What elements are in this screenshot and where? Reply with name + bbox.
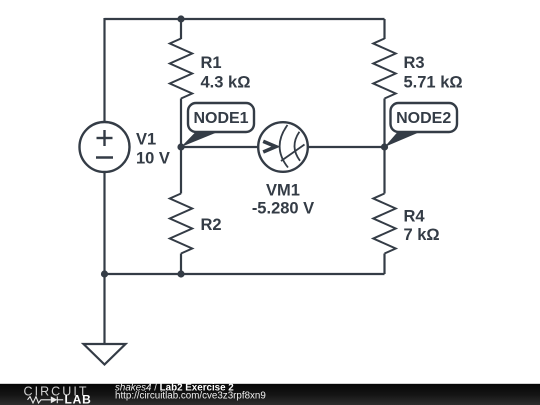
wire left rail lower (V1 to bottom rail and ground stem) bbox=[103, 172, 105, 344]
svg-text:NODE1: NODE1 bbox=[193, 110, 248, 127]
svg-text:7 kΩ: 7 kΩ bbox=[404, 226, 440, 244]
svg-text:-5.280 V: -5.280 V bbox=[252, 200, 314, 218]
svg-text:R3: R3 bbox=[404, 54, 425, 72]
svg-text:4.3 kΩ: 4.3 kΩ bbox=[201, 73, 251, 91]
footer bar bbox=[0, 383, 540, 405]
svg-text:NODE2: NODE2 bbox=[396, 110, 451, 127]
label VM1 reading bbox=[252, 182, 314, 218]
wire right branch R3 to R4 through NODE2 bbox=[383, 99, 385, 194]
wire bottom rail bbox=[105, 273, 385, 275]
resistor R4 bbox=[373, 194, 395, 254]
voltage source V1 bbox=[80, 122, 130, 172]
svg-text:V1: V1 bbox=[136, 131, 156, 149]
label V1 value bbox=[136, 131, 170, 168]
label R2 bbox=[201, 216, 222, 234]
junction dot bottom left bbox=[101, 270, 108, 277]
ground bbox=[84, 344, 126, 365]
svg-text:5.71 kΩ: 5.71 kΩ bbox=[404, 73, 463, 91]
junction dot NODE2 bbox=[381, 143, 388, 150]
wire right branch top lead of R3 bbox=[383, 19, 385, 39]
wire left rail upper (top rail to V1) bbox=[103, 18, 105, 122]
node NODE2 callout bbox=[385, 103, 458, 147]
resistor R2 bbox=[170, 194, 192, 254]
wire middle branch R1 to R2 through NODE1 bbox=[180, 99, 182, 194]
resistor R1 bbox=[170, 39, 192, 99]
label R3 value bbox=[404, 54, 463, 91]
footer title text bbox=[115, 382, 266, 401]
wire NODE1 to voltmeter bbox=[181, 146, 259, 148]
wire middle branch top lead of R1 bbox=[180, 19, 182, 39]
svg-text:VM1: VM1 bbox=[266, 182, 300, 200]
junction dot bottom middle bbox=[177, 270, 184, 277]
wire middle branch R2 bottom lead bbox=[180, 254, 182, 275]
voltmeter VM1 bbox=[258, 122, 308, 172]
junction dot top middle bbox=[177, 15, 184, 22]
node NODE1 callout bbox=[181, 103, 254, 147]
svg-text:R4: R4 bbox=[404, 208, 426, 226]
svg-text:http://circuitlab.com/cve3z3rp: http://circuitlab.com/cve3z3rpf8xn9 bbox=[115, 390, 266, 401]
svg-text:10 V: 10 V bbox=[136, 150, 170, 168]
CircuitLab logo bbox=[24, 384, 92, 405]
wire voltmeter to NODE2 bbox=[308, 146, 385, 148]
wire right branch R4 bottom lead bbox=[383, 254, 385, 275]
svg-text:R1: R1 bbox=[201, 54, 222, 72]
wire top rail bbox=[105, 18, 385, 20]
junction dot NODE1 bbox=[177, 143, 184, 150]
label R4 value bbox=[404, 208, 440, 245]
svg-text:LAB: LAB bbox=[65, 392, 92, 405]
svg-text:R2: R2 bbox=[201, 216, 222, 234]
resistor R3 bbox=[373, 39, 395, 99]
label R1 value bbox=[201, 54, 251, 91]
